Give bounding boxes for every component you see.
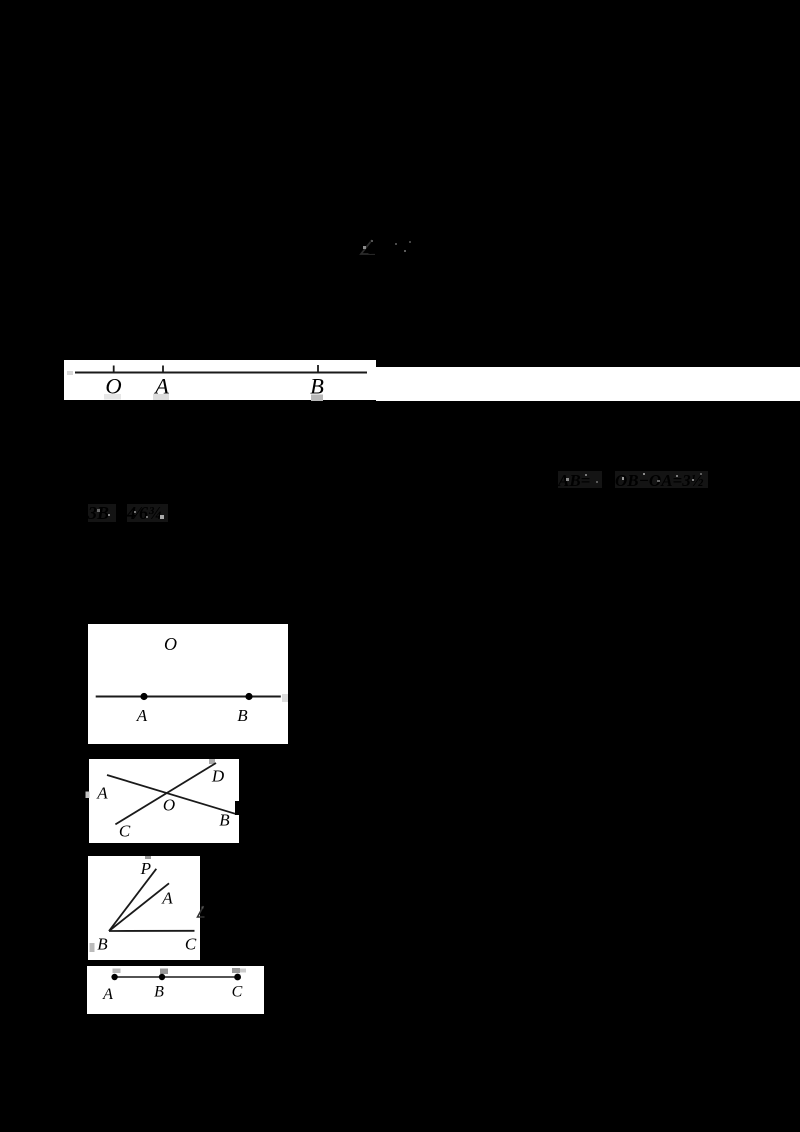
gray square above A [113, 969, 121, 974]
line through A and B [96, 696, 281, 698]
tick B [317, 365, 319, 373]
point B dot [245, 693, 252, 700]
svg-text:B: B [154, 984, 164, 1001]
svg-text:B: B [219, 811, 230, 830]
svg-text:3B: 3B [87, 503, 109, 523]
panel 1: point O above segment AB [88, 624, 288, 744]
svg-text:A: A [136, 706, 148, 725]
svg-text:C: C [119, 822, 131, 841]
gray square above B [160, 969, 168, 975]
gray tick top of panel 3 [145, 856, 151, 859]
tick A [162, 366, 164, 373]
svg-text:4⁄6¾: 4⁄6¾ [126, 503, 162, 523]
gray mark left edge of panel 2 [86, 792, 90, 799]
tick O [113, 366, 115, 373]
faint text: left label [87, 503, 168, 523]
gray mark under O [104, 394, 121, 400]
point B dot (panel 4) [159, 974, 165, 980]
svg-text:D: D [211, 767, 225, 786]
black mark right edge of panel 2 [235, 801, 241, 815]
gray square bottom-left panel 3 [90, 943, 95, 952]
svg-text:C: C [185, 935, 197, 954]
ray B to C [109, 930, 195, 932]
svg-text:B: B [97, 935, 108, 954]
point A dot [140, 693, 147, 700]
segment A to C [115, 976, 238, 978]
svg-text:A: A [161, 889, 173, 908]
svg-text:O: O [164, 634, 177, 654]
panel 2: lines AB and CD crossing at O [89, 759, 239, 843]
line C to D [115, 763, 216, 824]
svg-text:32°: 32° [390, 238, 418, 259]
svg-text:B: B [368, 238, 380, 259]
svg-text:A: A [102, 986, 113, 1003]
number line main line [75, 372, 367, 374]
svg-text:B: B [237, 706, 248, 725]
line A to B [107, 775, 237, 814]
svg-text:AB=: AB= [557, 471, 590, 490]
left smudge on number line [67, 371, 73, 375]
white strip right [376, 367, 800, 401]
faint text: equation right [557, 471, 708, 490]
gray mark under B [311, 395, 323, 402]
svg-text:O: O [163, 796, 175, 815]
gray tick top of panel 2 [209, 759, 215, 764]
ray B to P [109, 869, 156, 931]
svg-text:A: A [96, 784, 108, 803]
gray square right of C [240, 969, 246, 973]
panel 3: angle with rays BP, BA, BC [88, 856, 200, 960]
gray nub right of line [282, 694, 288, 702]
white strip left (number line panel) [64, 360, 376, 400]
faint text: angle value line [361, 238, 418, 259]
svg-text:P: P [140, 859, 151, 878]
point C dot (panel 4) [234, 974, 241, 981]
gray mark under A [153, 394, 169, 400]
panel 4: segment with points A B C [87, 966, 264, 1014]
svg-text:C: C [232, 984, 243, 1001]
gray square above C [232, 968, 240, 973]
ray B to A [109, 883, 169, 931]
point A dot (panel 4) [111, 974, 117, 980]
small angle mark at panel 3 right edge [198, 906, 205, 917]
